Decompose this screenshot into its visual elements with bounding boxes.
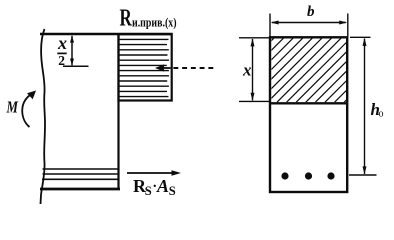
svg-text:и.прив.(x): и.прив.(x) <box>132 14 177 29</box>
svg-text:x: x <box>242 61 252 80</box>
svg-text:x: x <box>57 33 67 53</box>
svg-text:M: M <box>6 98 19 117</box>
svg-text:b: b <box>307 4 315 20</box>
label h0 <box>371 100 384 120</box>
dimension h0 with extension lines <box>349 37 377 175</box>
arrow Rs·As (tension force) <box>127 170 181 175</box>
moment curved arrow <box>22 91 36 128</box>
svg-text:R: R <box>120 5 133 31</box>
cross-section rectangle <box>270 37 347 192</box>
dimension x with extension lines <box>239 38 269 102</box>
hatched compression stress block <box>119 34 172 100</box>
label R и.прив.(x) <box>120 5 177 31</box>
svg-text:2: 2 <box>58 53 65 68</box>
reinforcement layer lines <box>42 169 118 179</box>
dimension x/2 with arrows <box>63 36 89 67</box>
svg-text:S: S <box>169 184 176 198</box>
svg-text:A: A <box>156 176 169 196</box>
wire: beam bottom edge <box>40 188 120 191</box>
dimension b with extension lines <box>270 14 348 37</box>
diagonal hatch of compression zone <box>210 38 394 103</box>
neutral axis line (bottom of compression zone) <box>270 102 347 104</box>
dashed arrow into stress block <box>155 64 213 71</box>
wire: section line (beam right edge) <box>117 33 119 190</box>
svg-text:S: S <box>145 184 152 198</box>
wire: beam top edge <box>40 33 173 36</box>
svg-text:o: o <box>379 109 384 120</box>
label Rs·As <box>133 176 176 198</box>
label x/2 fraction <box>57 33 67 68</box>
wire: beam wavy break edge (left) <box>41 29 46 204</box>
reinforcement bar dots <box>281 172 334 179</box>
